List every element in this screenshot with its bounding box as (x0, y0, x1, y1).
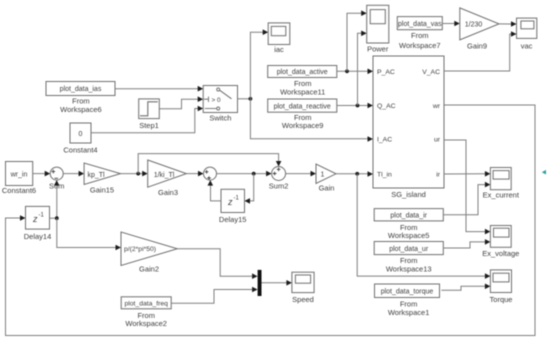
step Step1 (139, 99, 160, 130)
wire plot_data_vas to Gain9 (442, 23, 455, 25)
sum Sum2 (269, 167, 289, 191)
wire V_AC output to vac input 2 (444, 34, 512, 71)
svg-text:Workspace11: Workspace11 (280, 87, 325, 96)
svg-text:plot_data_ir: plot_data_ir (390, 213, 427, 220)
wire junction down into Delay15 right input (249, 174, 254, 201)
svg-text:-1: -1 (234, 196, 240, 202)
wire junction up to iac scope (250, 32, 263, 99)
wire plot_data_freq to Mux input 2 (171, 290, 253, 304)
svg-text:1/ki_Tl: 1/ki_Tl (154, 172, 175, 179)
svg-text:plot_data_torque: plot_data_torque (381, 289, 434, 296)
svg-text:plot_data_reactive: plot_data_reactive (274, 103, 331, 110)
constant plot_data_active From Workspace11 (268, 66, 337, 97)
svg-text:Constant6: Constant6 (2, 186, 36, 195)
constant Constant6 wr_in (2, 162, 36, 196)
wire Gain output to SG_island Tl_in with junction (336, 173, 369, 175)
block SG_island (373, 56, 444, 199)
svg-text:I_AC: I_AC (377, 137, 392, 144)
wire wr feedback loop from SG_island wr output around right/bottom/left to Delay14 input (6, 105, 536, 336)
wire junction down to Torque input 1 (357, 174, 486, 276)
wire junction to Gain3 (142, 171, 148, 177)
svg-text:From: From (411, 31, 429, 40)
wire Delay14 output to junction (50, 217, 57, 219)
svg-text:Workspace1: Workspace1 (388, 308, 430, 317)
scope Power (367, 5, 389, 53)
svg-text:wr: wr (432, 103, 441, 110)
scope iac (268, 23, 290, 54)
svg-text:plot_data_freq: plot_data_freq (124, 301, 168, 308)
svg-text:Torque: Torque (490, 295, 513, 304)
constant plot_data_reactive From Workspace9 (268, 99, 337, 130)
wire bypass from Gain15 junction to Sum2 top input (138, 154, 278, 174)
svg-text:> 0: > 0 (212, 97, 222, 104)
svg-text:SG_island: SG_island (391, 190, 426, 199)
svg-text:Ex_current: Ex_current (483, 191, 520, 200)
node junction on Q_AC wire (356, 104, 360, 108)
svg-text:Delay14: Delay14 (24, 232, 52, 241)
constant plot_data_ur From Workspace13 (374, 242, 443, 274)
wire Gain2 output to Mux input 1 (177, 249, 253, 276)
gain Gain9 1/230 (460, 8, 499, 51)
sum Sum (49, 167, 64, 190)
node junction after Sum1 (252, 172, 256, 176)
wire Delay14 output up to Sum bottom input (56, 185, 58, 219)
svg-text:Gain3: Gain3 (158, 188, 178, 197)
svg-text:P_AC: P_AC (377, 69, 395, 76)
svg-text:Sum2: Sum2 (269, 182, 289, 191)
gain Gain15 kp_Tl (84, 163, 120, 195)
wire Mux output to Speed scope (262, 282, 288, 284)
svg-text:plot_data_vas: plot_data_vas (398, 21, 442, 28)
wire Gain15 output to junction (121, 173, 144, 175)
svg-text:1: 1 (321, 171, 325, 178)
wire ur output to Ex_voltage input 1 (444, 140, 486, 232)
svg-text:plot_data_ias: plot_data_ias (60, 86, 102, 93)
svg-text:Ex_voltage: Ex_voltage (482, 249, 519, 258)
scope Speed (292, 272, 314, 304)
svg-text:z: z (227, 197, 233, 207)
wire Sum2 to Gain (286, 173, 312, 175)
svg-text:Switch: Switch (209, 114, 231, 123)
wire plot_data_active to SG_island P_AC with junction (337, 70, 369, 72)
switch Switch (203, 86, 237, 123)
svg-text:Workspace13: Workspace13 (386, 264, 432, 273)
svg-text:kp_Tl: kp_Tl (87, 172, 105, 179)
wire junction down to Gain2 input (57, 218, 117, 247)
mux Mux (258, 270, 262, 296)
sum Sum1 (204, 167, 217, 180)
svg-text:iac: iac (274, 45, 284, 54)
svg-text:Power: Power (367, 45, 389, 54)
scope Ex_current (483, 168, 520, 200)
svg-text:Workspace5: Workspace5 (388, 231, 430, 240)
node junction after Gain (355, 172, 359, 176)
gain Gain2 p/(2*pi*50) (121, 232, 177, 274)
node junction after Gain15 (136, 172, 140, 176)
constant plot_data_torque From Workspace1 (375, 284, 440, 317)
svg-text:Constant4: Constant4 (63, 146, 97, 155)
wire junction up to Power input 1 (347, 13, 362, 71)
delay Delay14 (24, 206, 52, 241)
wire Sum1 output to Sum2 with junction (217, 173, 268, 175)
svg-text:Gain9: Gain9 (467, 42, 487, 51)
wire junction down and right to SG_island I_AC input (250, 99, 368, 139)
node junction after Switch (249, 97, 253, 101)
wire plot_data_ir to Ex_current input 2 (443, 185, 486, 215)
svg-text:Tl_in: Tl_in (377, 171, 392, 178)
scope vac (517, 18, 537, 50)
svg-text:-1: -1 (39, 213, 45, 219)
wire Constant4 to Switch input 3 (91, 109, 199, 133)
constant plot_data_ir From Workspace5 (374, 209, 443, 241)
svg-text:Step1: Step1 (139, 121, 159, 130)
svg-text:Workspace2: Workspace2 (125, 319, 167, 328)
svg-text:1/230: 1/230 (465, 22, 483, 29)
constant plot_data_vas From Workspace7 (397, 17, 442, 50)
svg-text:Workspace9: Workspace9 (282, 121, 324, 130)
wire Delay15 output left and up into Sum1 bottom input (211, 184, 222, 201)
svg-text:plot_data_active: plot_data_active (277, 69, 328, 76)
svg-text:Workspace6: Workspace6 (60, 105, 102, 114)
wire Gain9 to vac input 1 (499, 23, 512, 25)
wire plot_data_ias to Switch input 1 (115, 88, 199, 90)
svg-text:Speed: Speed (292, 295, 314, 304)
delay Delay15 (219, 189, 247, 224)
svg-text:ur: ur (434, 137, 441, 144)
wire plot_data_ur to Ex_voltage input 2 (443, 242, 486, 248)
svg-text:p/(2*pi*50): p/(2*pi*50) (124, 246, 156, 253)
constant plot_data_ias From Workspace6 (46, 82, 115, 114)
constant plot_data_freq From Workspace2 (121, 297, 171, 328)
svg-text:Workspace7: Workspace7 (399, 41, 441, 50)
wire Gain3 to Sum1 (186, 173, 199, 175)
svg-text:plot_data_ur: plot_data_ur (389, 246, 429, 253)
wire ir output to Ex_current input 1 (444, 173, 486, 175)
wire plot_data_torque to Torque input 2 (441, 286, 486, 290)
svg-text:Q_AC: Q_AC (377, 103, 396, 110)
svg-text:vac: vac (521, 42, 533, 51)
wire Step1 to Switch input 2 (159, 99, 198, 109)
gain Gain 1 (316, 164, 336, 193)
gain Gain3 1/ki_Tl (148, 160, 187, 197)
node junction after Delay14 (55, 216, 59, 220)
svg-text:Gain: Gain (319, 184, 335, 193)
scope Torque (490, 270, 513, 304)
svg-text:Delay15: Delay15 (219, 215, 247, 224)
node junction on P_AC wire (345, 69, 349, 73)
wire plot_data_reactive to SG_island Q_AC with junction (337, 105, 369, 107)
scope Ex_voltage (482, 226, 519, 259)
node teal collapse arrow at right margin (542, 170, 546, 175)
wire Constant6 to Sum (33, 173, 45, 175)
wire Sum to Gain15 (63, 173, 79, 175)
wire Switch output with junction (238, 98, 251, 100)
svg-text:Gain15: Gain15 (90, 186, 114, 195)
svg-text:Gain2: Gain2 (139, 265, 159, 274)
svg-text:V_AC: V_AC (422, 69, 440, 76)
svg-text:z: z (32, 214, 38, 224)
wire junction up to Power input 2 (358, 33, 363, 105)
svg-text:wr_in: wr_in (10, 172, 28, 179)
svg-text:0: 0 (79, 131, 83, 138)
constant Constant4 0 (63, 123, 97, 155)
